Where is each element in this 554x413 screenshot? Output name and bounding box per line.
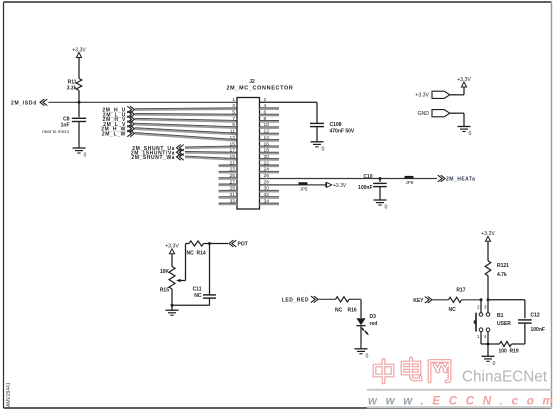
ground (C108) xyxy=(311,142,325,153)
wire stub pin 16 xyxy=(260,145,280,147)
wire stub pin 18 xyxy=(260,151,280,153)
svg-text:NC: NC xyxy=(335,308,343,314)
label D3 red xyxy=(370,314,378,327)
jumper JP5 xyxy=(299,182,308,191)
svg-text:2: 2 xyxy=(477,304,480,309)
port 2M_SHUNT_Wa xyxy=(131,154,183,161)
resistor R16 xyxy=(336,297,350,302)
power +3.3V (POT) xyxy=(165,244,179,254)
svg-text:9: 9 xyxy=(232,122,235,128)
capacitor C8 xyxy=(72,118,86,121)
wire stub pin 4 xyxy=(260,107,280,109)
resistor R11 xyxy=(76,79,82,91)
wiper arrow R15 xyxy=(176,279,185,283)
wire stub pin 30 xyxy=(260,189,280,191)
svg-text:0: 0 xyxy=(322,146,325,152)
port POT xyxy=(229,240,248,247)
svg-text:R19: R19 xyxy=(510,349,519,355)
junction C10 tap xyxy=(379,177,382,180)
junction button pin3 node xyxy=(487,298,490,301)
svg-text:2M_HEATa: 2M_HEATa xyxy=(446,177,475,183)
svg-text:100nF: 100nF xyxy=(531,327,545,333)
wire C12 to bottom rail xyxy=(524,323,526,344)
wire +3.3V to R15 xyxy=(171,254,173,267)
wire stub pin 31 xyxy=(219,196,238,198)
svg-text:R17: R17 xyxy=(456,288,465,294)
wire stub pin 32 xyxy=(260,196,280,198)
port 2M_H_U xyxy=(102,106,134,113)
button B1 pin1 lead xyxy=(480,332,482,345)
svg-text:JP5: JP5 xyxy=(300,187,308,192)
wire KEY to R17 xyxy=(433,299,449,301)
svg-text:4.7k: 4.7k xyxy=(497,272,507,278)
svg-text:LED_RED: LED_RED xyxy=(282,297,309,303)
svg-text:KEY: KEY xyxy=(413,298,424,304)
svg-text:2M_ISDd: 2M_ISDd xyxy=(11,100,37,106)
svg-text:+3.3V: +3.3V xyxy=(415,93,429,99)
wire GND flag to ground xyxy=(450,113,464,126)
wire net 2M_H_V to J2 xyxy=(135,118,237,120)
wire R11 to node xyxy=(78,91,80,103)
capacitor C11 xyxy=(203,295,216,298)
label C11 NC xyxy=(193,287,202,300)
wire net 2M_1SHUNT/Va to J2 xyxy=(185,151,237,154)
wire R14 to POT node xyxy=(204,243,210,245)
junction node 2M_ISDd / R11 / C8 xyxy=(78,101,81,104)
wire R16 to D3 xyxy=(349,299,361,318)
watermark divider line lower xyxy=(367,406,552,408)
svg-text:1nF: 1nF xyxy=(61,123,70,129)
wire wiper to R14 xyxy=(186,244,190,281)
wire net 2M_H_W to J2 xyxy=(135,128,237,133)
svg-text:2M_MC_CONNECTOR: 2M_MC_CONNECTOR xyxy=(226,86,293,92)
svg-text:C12: C12 xyxy=(531,313,540,319)
button B1 contacts xyxy=(479,313,490,332)
label NC R16 xyxy=(335,308,357,314)
wire C10 tap down xyxy=(379,179,381,183)
svg-text:100: 100 xyxy=(499,349,508,355)
svg-text:R14: R14 xyxy=(197,251,206,257)
wire C11 to bottom rail xyxy=(209,298,211,305)
svg-text:near to micro: near to micro xyxy=(42,129,69,134)
svg-text:www.ECCN.com: www.ECCN.com xyxy=(368,396,554,408)
svg-text:0: 0 xyxy=(84,153,87,159)
svg-text:2M_L_W: 2M_L_W xyxy=(102,131,126,137)
port 2M_HEATa xyxy=(438,175,476,182)
junction POT ground node xyxy=(171,304,174,307)
wire stub pin 23 xyxy=(219,170,238,172)
svg-text:3: 3 xyxy=(232,103,235,109)
wire C8 to ground xyxy=(78,122,80,148)
resistor R19 xyxy=(500,341,512,346)
power +3.3V (button) xyxy=(481,231,495,241)
wire R19 to C12 bottom xyxy=(512,343,525,345)
ground (D3) xyxy=(355,349,369,360)
button B1 pin3 lead xyxy=(487,300,489,313)
wire stub pin 21 xyxy=(219,164,238,166)
svg-text:GND: GND xyxy=(417,111,429,117)
wire J2 pin2 to C108 xyxy=(260,102,318,123)
resistor R17 xyxy=(449,297,462,302)
port 2M_SHUNT_Ua xyxy=(132,145,183,152)
svg-text:1: 1 xyxy=(477,334,480,339)
button B1 pin4 lead xyxy=(487,332,489,345)
wire top rail to C12 xyxy=(488,300,525,318)
wire stub pin 22 xyxy=(260,164,280,166)
wire net 2M_L_V to J2 xyxy=(135,123,237,127)
wire net 2M_ISDd to J2 pin1 xyxy=(49,101,238,103)
wire C10 to ground xyxy=(379,187,381,200)
port KEY xyxy=(413,297,432,304)
svg-text:100nF: 100nF xyxy=(358,185,372,191)
port LED_RED xyxy=(282,296,318,303)
wire stub pin 27 xyxy=(219,183,238,185)
label C12 100nF xyxy=(531,313,545,334)
svg-text:AMV29441: AMV29441 xyxy=(6,382,12,407)
svg-text:0: 0 xyxy=(366,353,369,359)
svg-text:NC: NC xyxy=(194,293,202,299)
wire +3.3V to R121 xyxy=(487,241,489,260)
power arrow +3.3V (pin28) xyxy=(326,182,347,189)
wire stub pin 10 xyxy=(260,126,280,128)
wire J2 pin28 to JP5/+3.3V xyxy=(260,184,327,186)
capacitor C10 xyxy=(373,183,387,186)
svg-text:POT: POT xyxy=(238,242,248,248)
junction button pin2 node xyxy=(480,298,483,301)
ground (C10) xyxy=(374,200,388,211)
wire stub pin 14 xyxy=(260,139,280,141)
svg-text:19: 19 xyxy=(230,154,236,160)
svg-text:B1: B1 xyxy=(497,313,504,319)
svg-text:USER: USER xyxy=(497,321,511,327)
label B1 USER xyxy=(497,313,511,327)
button B1 pin2 lead xyxy=(480,300,482,313)
wire R15 bottom xyxy=(171,289,173,305)
wire flag to +3.3V arrow xyxy=(450,87,464,95)
wire net 2M_SHUNT_Ua to J2 xyxy=(185,146,237,147)
wire R17 to button node xyxy=(462,299,482,301)
jumper JP8 xyxy=(405,176,414,185)
svg-text:3: 3 xyxy=(484,304,487,309)
label C10 100nF xyxy=(358,174,373,191)
wire stub pin 29 xyxy=(219,189,238,191)
svg-text:470nF 50V: 470nF 50V xyxy=(330,128,355,134)
power +3.3V (flag area) xyxy=(457,77,471,87)
wire D3 to ground xyxy=(360,326,362,349)
svg-text:0: 0 xyxy=(469,131,472,137)
wire net 2M_H_U to J2 xyxy=(135,107,237,110)
svg-text:11: 11 xyxy=(230,129,235,135)
connector J2 body xyxy=(237,98,260,210)
svg-text:4: 4 xyxy=(484,334,487,339)
svg-text:C10: C10 xyxy=(363,174,372,180)
wire stub pin 25 xyxy=(219,177,238,179)
label R121 4.7k xyxy=(497,263,509,278)
ground (C8) xyxy=(73,148,87,159)
port 2M_L_U xyxy=(103,111,135,118)
svg-text:0: 0 xyxy=(493,361,496,367)
junction button ground node xyxy=(487,343,490,346)
power +3.3V (top left) xyxy=(72,48,86,58)
capacitor C12 xyxy=(518,320,532,323)
port 2M_H_W xyxy=(101,125,134,132)
svg-text:5: 5 xyxy=(232,110,235,116)
LED D3 emission arrows xyxy=(361,327,369,335)
ground (button) xyxy=(482,356,496,367)
connector flag +3.3V xyxy=(415,91,450,98)
port 2M_ISDd xyxy=(11,99,47,106)
svg-text:R16: R16 xyxy=(348,308,357,314)
svg-text:10K: 10K xyxy=(160,269,170,275)
ground (POT) xyxy=(166,310,179,315)
port 2M_L_W xyxy=(102,130,135,137)
ground (GND flag) xyxy=(458,127,472,138)
label C108 470nF 50V xyxy=(330,122,355,134)
wire to ground (POT) xyxy=(171,305,173,310)
wire to ground (button) xyxy=(487,344,489,356)
label C8 1nF xyxy=(61,117,70,129)
wire bottom rail to R19 xyxy=(481,343,500,345)
wire net 2M_L_U to J2 xyxy=(135,113,237,116)
wire POT node to port xyxy=(210,243,229,245)
svg-text:JP8: JP8 xyxy=(406,180,414,185)
wire +3.3V to R11 xyxy=(78,58,80,79)
svg-text:+3.3V: +3.3V xyxy=(333,183,347,189)
wire C108 to ground xyxy=(316,127,318,142)
svg-text:3.3k: 3.3k xyxy=(67,86,77,92)
wire stub pin 34 xyxy=(260,202,280,204)
connector flag GND xyxy=(417,110,449,117)
junction POT node xyxy=(208,242,211,245)
svg-text:17: 17 xyxy=(230,148,236,154)
wire LED_RED to R16 xyxy=(319,298,336,300)
potentiometer R15 body xyxy=(169,267,175,290)
document number label AMV29441 (rotated) xyxy=(6,382,12,407)
svg-text:1: 1 xyxy=(232,97,235,103)
svg-text:NC: NC xyxy=(187,251,195,257)
svg-text:0: 0 xyxy=(385,205,388,211)
button B1 actuator xyxy=(474,313,476,332)
port 2M_L_V xyxy=(103,121,134,128)
LED D3 xyxy=(356,318,365,326)
label R11 3.3k xyxy=(67,80,77,92)
wire stub pin 33 xyxy=(219,202,238,204)
svg-text:R15: R15 xyxy=(160,288,169,294)
wire stub pin 6 xyxy=(260,113,280,115)
label 100 R19 xyxy=(499,349,519,355)
svg-text:7: 7 xyxy=(232,116,235,122)
svg-text:NC: NC xyxy=(449,307,457,313)
svg-text:C108: C108 xyxy=(330,122,342,128)
svg-text:R121: R121 xyxy=(497,263,509,269)
svg-text:13: 13 xyxy=(230,135,236,141)
wire net 2M_SHUNT_Wa to J2 xyxy=(185,156,237,159)
wire stub pin 20 xyxy=(260,158,280,160)
wire bottom rail (POT) xyxy=(172,304,210,306)
svg-text:J2: J2 xyxy=(249,79,255,85)
wire J2 pin26 net 2M_HEATa xyxy=(260,178,438,180)
resistor R14 xyxy=(189,241,204,246)
wire POT node to C11 xyxy=(209,244,211,295)
svg-text:C11: C11 xyxy=(193,287,202,293)
svg-text:D3: D3 xyxy=(370,314,377,320)
label NC R14 xyxy=(187,251,206,257)
svg-text:ChinaECNet: ChinaECNet xyxy=(462,369,548,386)
svg-text:2M_SHUNT_Wa: 2M_SHUNT_Wa xyxy=(131,155,175,161)
wire stub pin 12 xyxy=(260,132,280,134)
wire node to C8 xyxy=(78,102,80,117)
svg-text:red: red xyxy=(370,321,378,327)
watermark divider line upper xyxy=(367,389,552,391)
wire stub pin 8 xyxy=(260,120,280,122)
port 2M_1SHUNT/Va xyxy=(131,149,184,156)
svg-text:15: 15 xyxy=(230,141,236,147)
resistor R121 xyxy=(485,261,491,276)
wire R121 to key node xyxy=(487,276,489,300)
watermark 中电网 logo xyxy=(375,359,450,383)
wire stub pin 24 xyxy=(260,170,280,172)
wire net 2M_L_W to J2 xyxy=(135,133,237,140)
capacitor C108 xyxy=(310,123,324,126)
port 2M_H_V xyxy=(103,116,135,123)
